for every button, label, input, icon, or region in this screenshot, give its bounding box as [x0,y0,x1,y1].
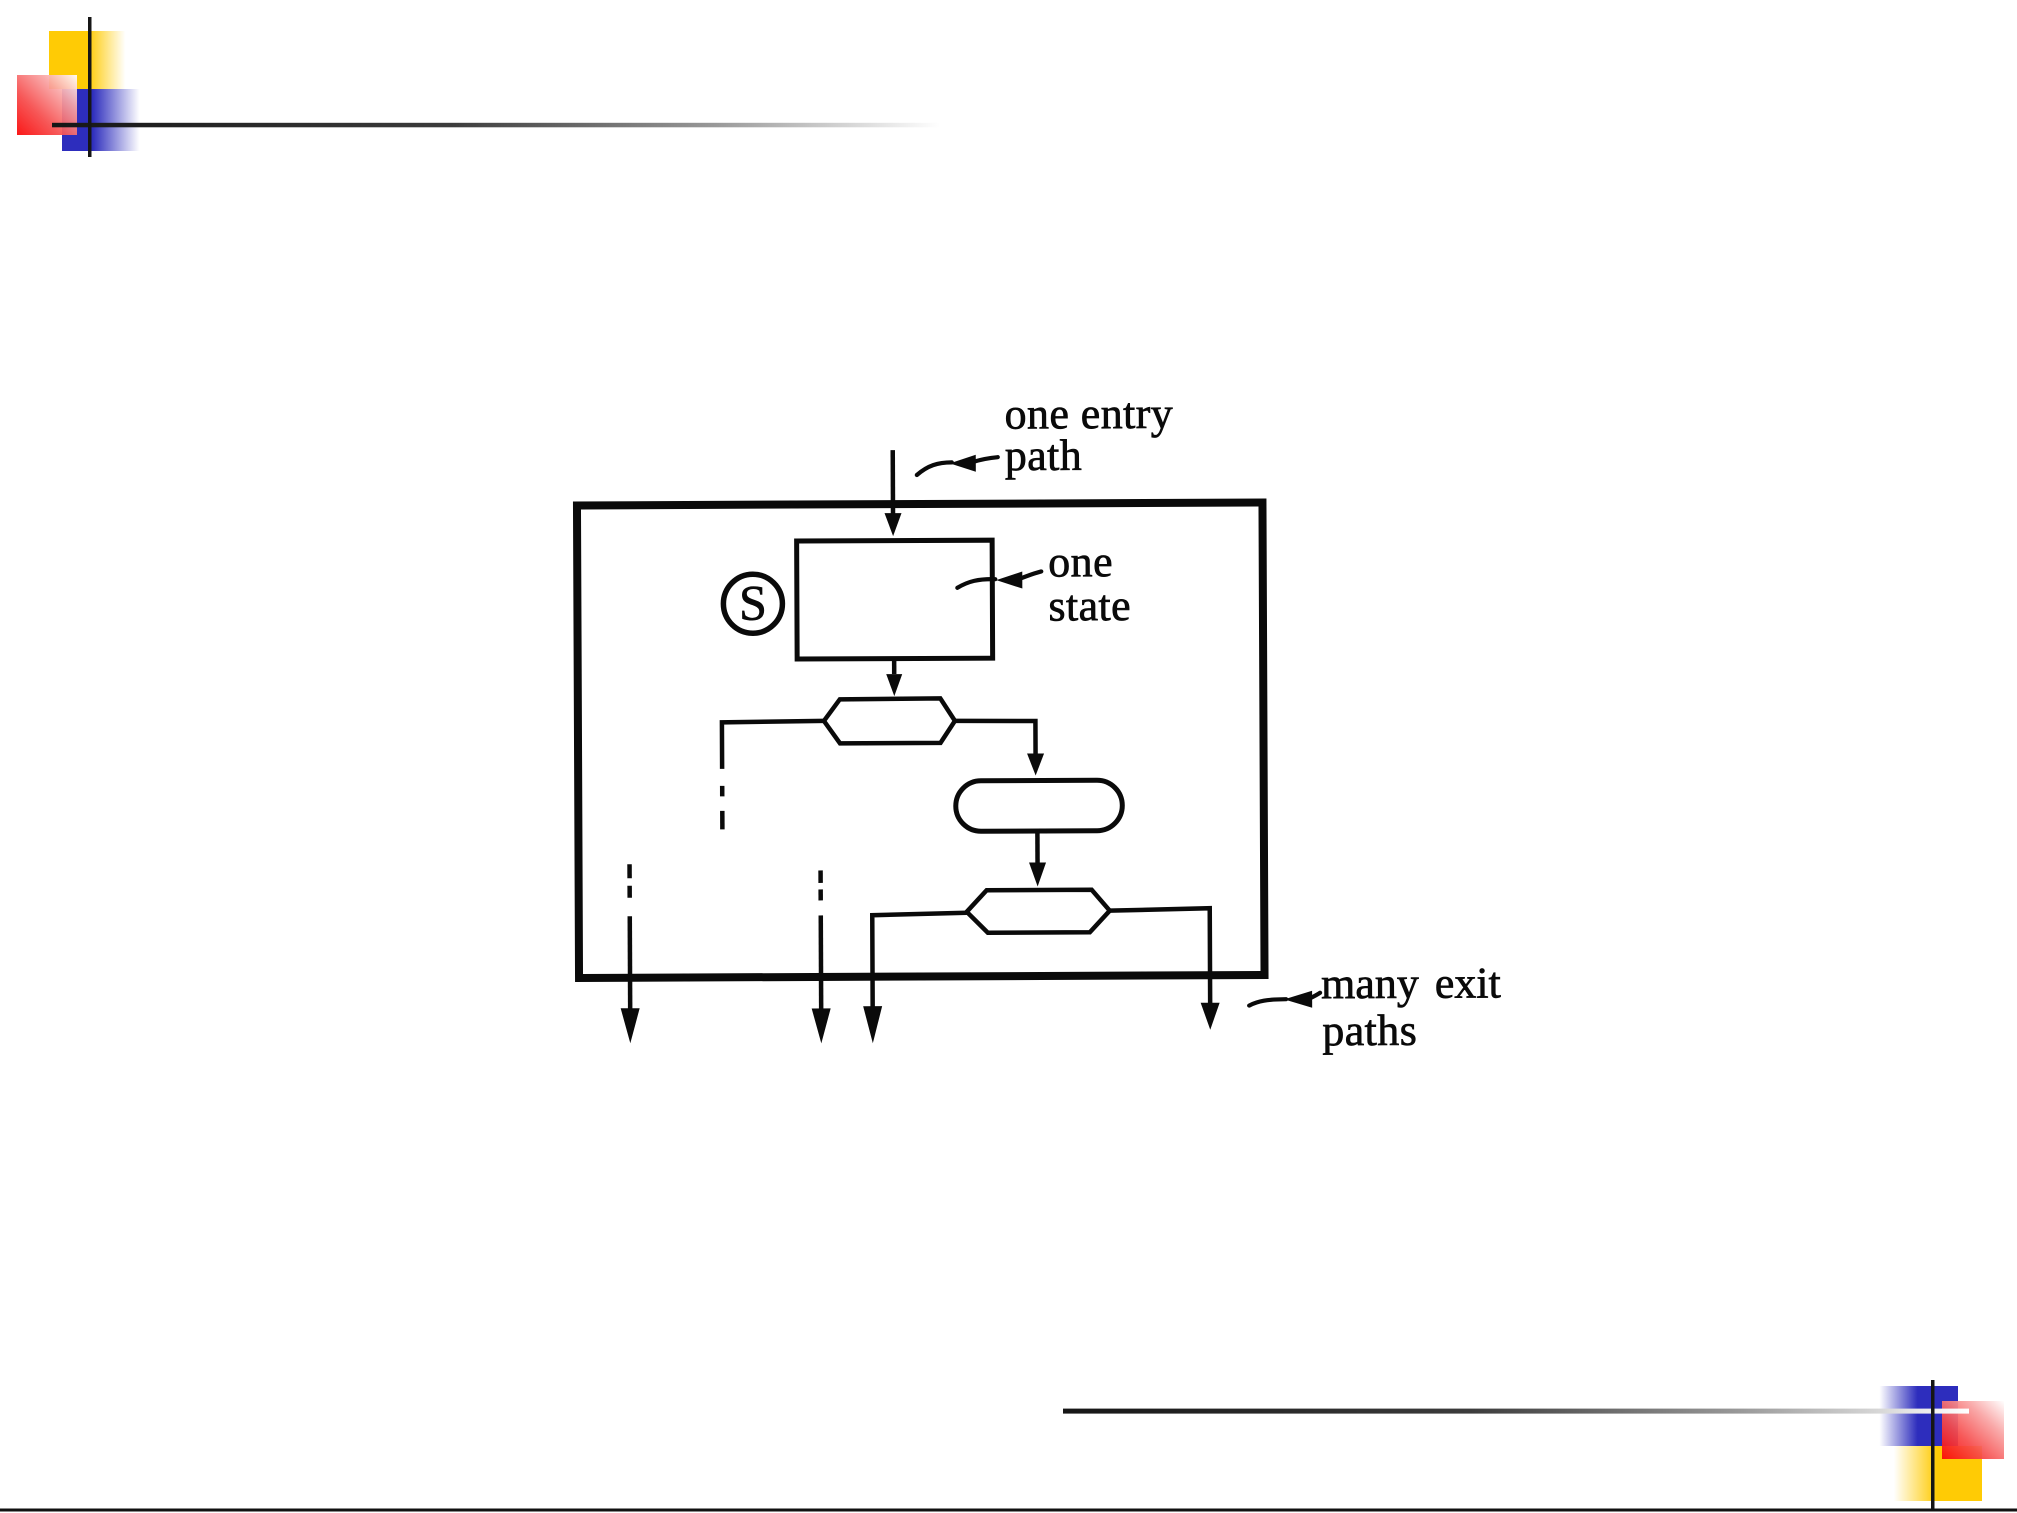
svg-text:one: one [1048,537,1113,586]
svg-text:many exit: many exit [1321,958,1501,1008]
svg-text:path: path [1005,431,1083,480]
svg-text:S: S [739,575,767,631]
svg-text:state: state [1048,581,1131,630]
svg-text:paths: paths [1322,1006,1417,1055]
